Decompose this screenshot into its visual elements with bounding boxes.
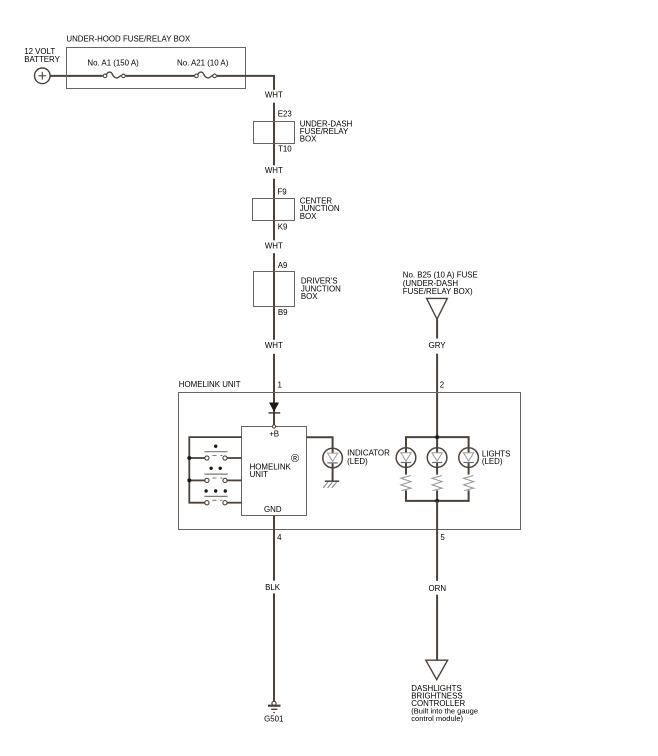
wire BLK to ground G501 bbox=[273, 593, 275, 701]
svg-text:5: 5 bbox=[440, 533, 445, 542]
dashlights controller arrow bbox=[426, 660, 448, 679]
indicator LED bbox=[323, 448, 390, 468]
switch 3 wires bbox=[227, 502, 242, 504]
wire GRY to homelink pin 2 bbox=[436, 354, 438, 448]
svg-text:BLK: BLK bbox=[265, 583, 281, 592]
fuse B25 label bbox=[403, 271, 478, 297]
HOMELINK UNIT outer box bbox=[179, 380, 521, 530]
wire through under-dash box bbox=[273, 121, 275, 143]
lights LED top bus bbox=[405, 436, 470, 438]
+B terminal circle bbox=[272, 425, 275, 428]
wire resistor R2 to bottom bus bbox=[436, 490, 438, 501]
stub right LED bbox=[468, 437, 470, 447]
junction dot top bus bbox=[435, 435, 439, 439]
driver's junction box connector bbox=[254, 272, 342, 307]
fuse No. A1 (150 A) bbox=[87, 58, 139, 78]
svg-text:control module): control module) bbox=[411, 714, 463, 723]
svg-text:UNIT: UNIT bbox=[250, 470, 269, 479]
dashlights brightness controller label bbox=[411, 684, 478, 723]
wire WHT to homelink pin 1 bbox=[273, 354, 275, 425]
svg-text:WHT: WHT bbox=[265, 90, 283, 99]
svg-text:GRY: GRY bbox=[429, 341, 447, 350]
wire LED2 to resistor bbox=[436, 468, 438, 475]
svg-text:F9: F9 bbox=[277, 188, 287, 197]
svg-text:BOX: BOX bbox=[301, 292, 318, 301]
wire indicator LED to ground bbox=[332, 468, 334, 481]
wire GND pin 4 down bbox=[273, 515, 275, 580]
switch 3 (3-dot button) bbox=[204, 489, 227, 505]
lights LED label bbox=[482, 449, 511, 466]
switch bus wire bbox=[189, 437, 241, 503]
lights LED 3 bbox=[459, 448, 479, 468]
svg-text:(LED): (LED) bbox=[482, 457, 503, 466]
wire WHT to connector A9 bbox=[273, 253, 275, 306]
svg-text:T10: T10 bbox=[278, 145, 292, 154]
resistor R1 bbox=[401, 476, 411, 491]
svg-text:(LED): (LED) bbox=[347, 457, 368, 466]
wire WHT to connector E23 bbox=[273, 103, 275, 122]
svg-text:2: 2 bbox=[440, 381, 444, 390]
junction dot bus row1 bbox=[187, 456, 191, 460]
wire LED1 to resistor bbox=[405, 468, 407, 475]
resistor R3 bbox=[464, 476, 474, 491]
wire WHT to connector F9 bbox=[273, 179, 275, 221]
wire fuse A21 to corner and down bbox=[217, 76, 274, 90]
under-hood fuse/relay box bbox=[66, 34, 245, 88]
svg-text:B9: B9 bbox=[278, 308, 288, 317]
svg-text:®: ® bbox=[291, 453, 299, 465]
stub left LED bbox=[405, 437, 407, 447]
svg-text:BATTERY: BATTERY bbox=[24, 55, 60, 64]
wire K9 down bbox=[273, 221, 275, 241]
svg-text:1: 1 bbox=[278, 381, 282, 390]
svg-text:ORN: ORN bbox=[429, 584, 447, 593]
junction dot bottom bus bbox=[435, 499, 439, 503]
diode arrow on pin 1 wire bbox=[269, 403, 281, 413]
svg-text:BOX: BOX bbox=[300, 134, 317, 143]
wire LED3 to resistor bbox=[468, 468, 470, 475]
svg-text:FUSE/RELAY BOX): FUSE/RELAY BOX) bbox=[403, 287, 473, 296]
lights LED 1 bbox=[396, 448, 416, 468]
svg-text:GND: GND bbox=[264, 505, 282, 514]
svg-text:HOMELINK UNIT: HOMELINK UNIT bbox=[179, 380, 241, 389]
wire resistor R1 to bottom bus bbox=[405, 490, 407, 501]
svg-text:No. A21 (10 A): No. A21 (10 A) bbox=[177, 58, 229, 67]
battery 12 VOLT BATTERY bbox=[24, 47, 60, 83]
lights LED bottom bus bbox=[405, 500, 470, 502]
svg-text:4: 4 bbox=[277, 533, 282, 542]
under-dash fuse/relay box connector bbox=[254, 120, 353, 144]
wire +B to indicator LED bbox=[306, 437, 332, 448]
lights LED 2 bbox=[427, 448, 447, 468]
svg-text:A9: A9 bbox=[278, 261, 288, 270]
homelink inner unit box bbox=[242, 427, 307, 516]
switch 1 wires bbox=[189, 457, 205, 459]
switch 2 (2-dot button) bbox=[204, 467, 227, 483]
svg-text:BOX: BOX bbox=[300, 212, 317, 221]
center junction box connector bbox=[253, 197, 340, 221]
ground (indicator LED) bbox=[323, 481, 339, 488]
fuse B25 source triangle bbox=[427, 298, 448, 319]
svg-text:K9: K9 bbox=[278, 222, 288, 231]
junction dot bus row2 bbox=[187, 478, 191, 482]
wire pin 5 down bbox=[436, 501, 438, 581]
svg-text:+B: +B bbox=[269, 430, 279, 439]
switch 2 wires bbox=[189, 479, 205, 481]
switch 1 (1-dot button) bbox=[204, 445, 227, 461]
wire resistor R3 to bottom bus bbox=[468, 490, 470, 501]
ground G501 bbox=[264, 701, 283, 723]
svg-text:G501: G501 bbox=[264, 714, 283, 723]
svg-text:No. A1 (150 A): No. A1 (150 A) bbox=[87, 58, 139, 67]
fuse No. A21 (10 A) bbox=[177, 58, 229, 78]
svg-text:WHT: WHT bbox=[265, 241, 283, 250]
svg-text:WHT: WHT bbox=[265, 166, 283, 175]
wire B9 down bbox=[273, 307, 275, 340]
svg-text:E23: E23 bbox=[278, 110, 293, 119]
svg-text:WHT: WHT bbox=[265, 341, 283, 350]
wire ORN to dashlights controller bbox=[436, 595, 438, 660]
svg-text:UNDER-HOOD FUSE/RELAY BOX: UNDER-HOOD FUSE/RELAY BOX bbox=[66, 34, 191, 43]
wire B25 down bbox=[436, 319, 438, 338]
wire T10 down bbox=[273, 144, 275, 166]
resistor R2 bbox=[432, 476, 442, 491]
wire battery to under-hood box bbox=[50, 75, 103, 77]
wire between fuses bbox=[126, 75, 195, 77]
